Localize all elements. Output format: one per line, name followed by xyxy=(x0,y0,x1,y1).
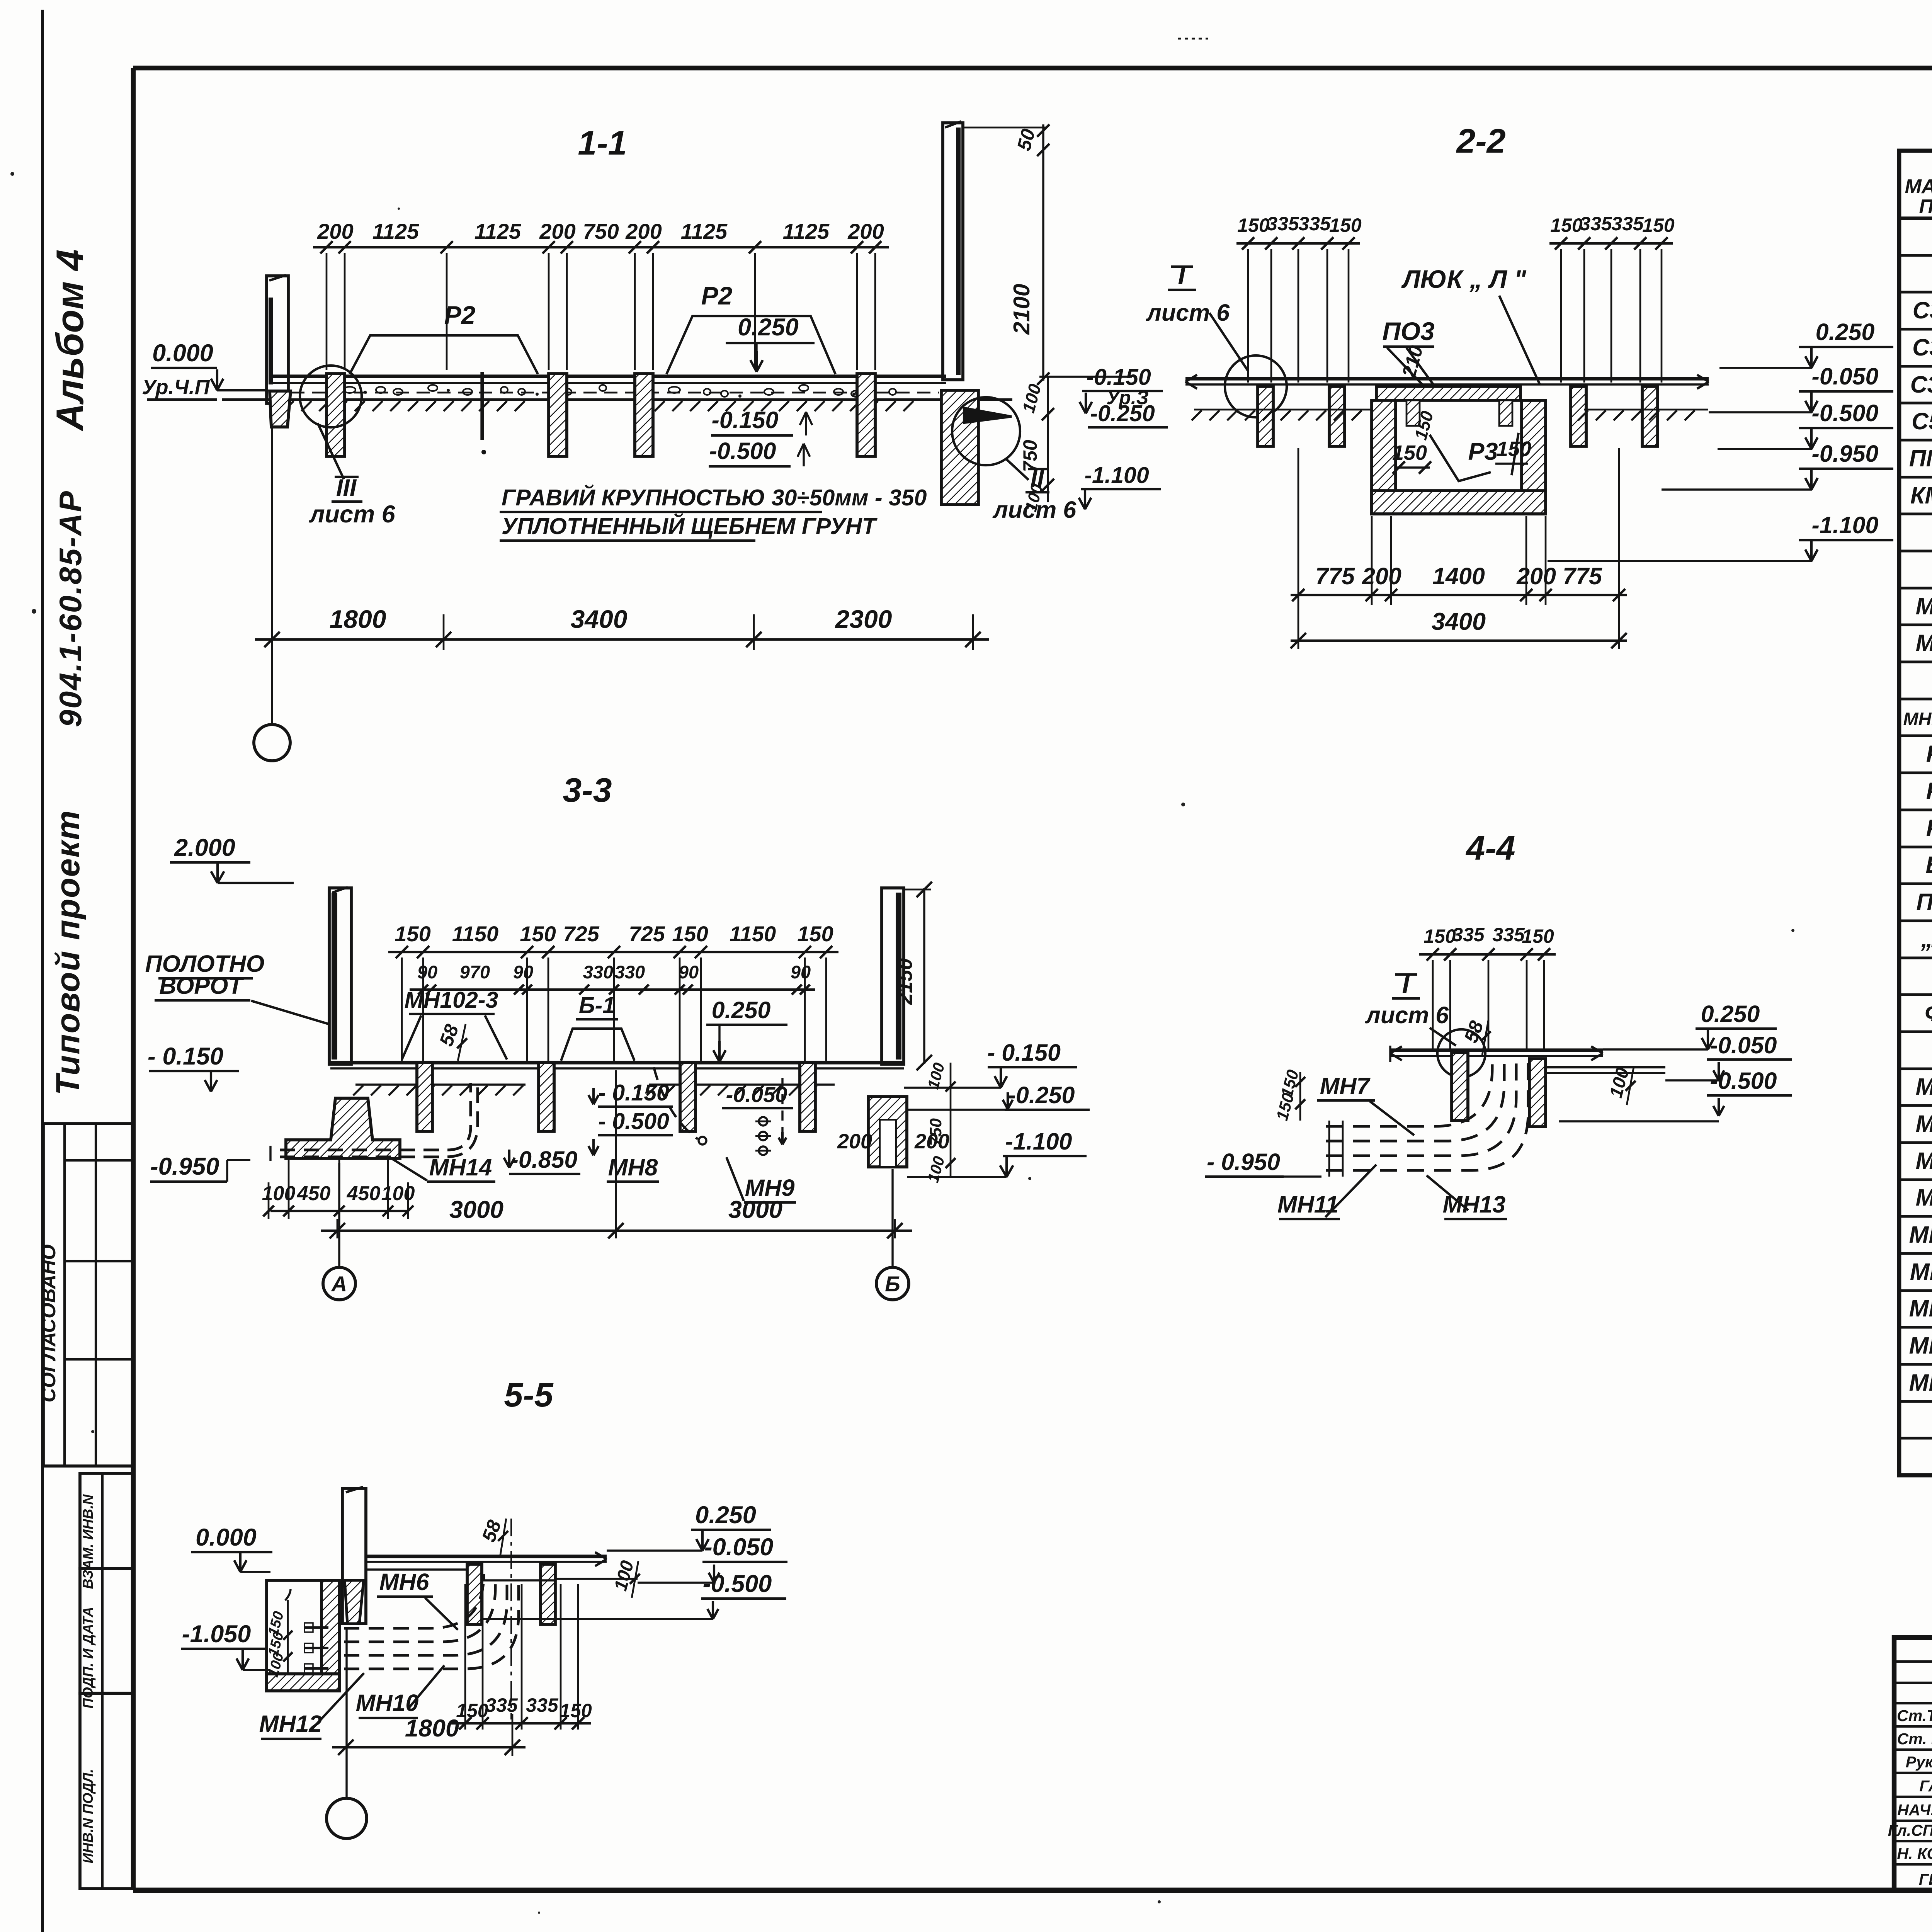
svg-text:100: 100 xyxy=(381,1182,415,1205)
section 4-4 right slab lines xyxy=(1546,1066,1665,1068)
svg-text:200: 200 xyxy=(625,219,662,243)
svg-text:ПМ18: ПМ18 xyxy=(1909,445,1932,471)
svg-text:335: 335 xyxy=(1298,213,1331,235)
section 4-4 top dim xyxy=(1419,953,1556,956)
svg-text:Ф6: Ф6 xyxy=(1925,1000,1932,1026)
svg-text:Р3: Р3 xyxy=(1926,815,1932,841)
svg-text:-0.050: -0.050 xyxy=(726,1082,787,1107)
svg-text:150: 150 xyxy=(1522,925,1554,947)
svg-text:150: 150 xyxy=(395,922,430,946)
svg-text:450: 450 xyxy=(297,1182,331,1205)
svg-text:1800: 1800 xyxy=(330,605,386,633)
section 2-2 pit walls xyxy=(1372,400,1396,514)
svg-text:0.250: 0.250 xyxy=(1816,319,1875,345)
svg-text:Р1: Р1 xyxy=(1926,741,1932,767)
svg-text:775: 775 xyxy=(1315,563,1355,589)
section 1-1 ground line xyxy=(222,398,1012,401)
svg-text:2.000: 2.000 xyxy=(174,834,235,861)
section 1-1 grate label Р2 left xyxy=(350,335,538,374)
svg-text:ВЗАМ. ИНВ.N: ВЗАМ. ИНВ.N xyxy=(80,1494,96,1589)
svg-text:150: 150 xyxy=(797,922,833,946)
spec table grid xyxy=(1899,151,1932,1475)
svg-text:750: 750 xyxy=(1019,440,1041,472)
svg-text:335: 335 xyxy=(1492,924,1525,946)
svg-text:Р2: Р2 xyxy=(444,301,476,329)
section 1-1 fence post footing 3 xyxy=(635,374,653,456)
svg-text:ЛЮК „ Л ": ЛЮК „ Л " xyxy=(1401,265,1526,293)
section 2-2 top dim right group xyxy=(1549,242,1673,245)
svg-text:III: III xyxy=(336,474,357,502)
svg-text:4-4: 4-4 xyxy=(1465,829,1515,867)
section 3-3 right gate post xyxy=(882,888,904,1064)
svg-text:-0.500: -0.500 xyxy=(709,438,776,464)
section 3-3 left foundation Ф6 xyxy=(286,1098,400,1158)
section 1-1 bottom dimension line xyxy=(255,638,989,641)
section 3-3 post footing 2 xyxy=(539,1063,554,1131)
svg-text:- 0.150: - 0.150 xyxy=(148,1043,223,1070)
svg-text:УПЛОТНЕННЫЙ ЩЕБНЕМ ГРУНТ: УПЛОТНЕННЫЙ ЩЕБНЕМ ГРУНТ xyxy=(502,513,878,539)
section 3-3 post footing 1 xyxy=(417,1063,432,1131)
title block left grid rows xyxy=(1894,1660,1932,1663)
svg-text:I: I xyxy=(1178,260,1186,290)
svg-text:90: 90 xyxy=(679,962,699,982)
fold mark top center xyxy=(1178,38,1208,40)
svg-text:С38г: С38г xyxy=(1913,297,1932,323)
svg-text:- 0.950: - 0.950 xyxy=(1207,1149,1280,1175)
svg-text:„Л": „Л" xyxy=(1920,926,1932,952)
svg-text:725: 725 xyxy=(629,922,665,946)
svg-text:335: 335 xyxy=(1580,213,1612,235)
svg-text:Ст.ТЕХН.: Ст.ТЕХН. xyxy=(1897,1707,1932,1725)
sheet frame xyxy=(133,66,1932,70)
svg-text:НАЧ.ОТД.: НАЧ.ОТД. xyxy=(1897,1801,1932,1819)
sidebar box ПОДП. И ДАТА xyxy=(80,1568,133,1693)
svg-text:200: 200 xyxy=(1362,563,1401,589)
svg-text:0.250: 0.250 xyxy=(1701,1001,1760,1027)
svg-text:-0.050: -0.050 xyxy=(1812,363,1879,389)
svg-text:МН11: МН11 xyxy=(1910,1259,1932,1285)
svg-text:335: 335 xyxy=(1611,213,1644,235)
svg-text:-0.050: -0.050 xyxy=(1710,1032,1777,1058)
svg-text:150: 150 xyxy=(1550,214,1583,236)
section 1-1 right side dims xyxy=(963,127,1046,129)
svg-text:1125: 1125 xyxy=(372,219,419,243)
svg-text:ВОРОТ: ВОРОТ xyxy=(159,973,244,999)
section 5-5 dim 1800 xyxy=(332,1746,526,1748)
section 1-1 right wall post xyxy=(943,123,963,380)
svg-text:-0.500: -0.500 xyxy=(703,1570,772,1597)
svg-text:3-3: 3-3 xyxy=(563,771,612,809)
svg-text:Р2: Р2 xyxy=(701,281,733,310)
svg-text:330: 330 xyxy=(615,962,645,982)
svg-text:3000: 3000 xyxy=(728,1196,782,1223)
section 5-5 ground lines right xyxy=(482,1579,556,1581)
svg-text:ИНВ.N ПОДЛ.: ИНВ.N ПОДЛ. xyxy=(80,1769,96,1864)
svg-text:150: 150 xyxy=(1392,441,1427,464)
svg-text:200: 200 xyxy=(1516,563,1556,589)
svg-text:А: А xyxy=(331,1272,347,1296)
svg-text:Р3: Р3 xyxy=(1468,438,1498,465)
section 3-3 sub dim line xyxy=(410,988,815,991)
section 2-2 bottom dims xyxy=(1291,594,1627,596)
scan specks xyxy=(10,172,14,176)
svg-text:200: 200 xyxy=(837,1130,872,1153)
svg-text:-0.150: -0.150 xyxy=(1086,364,1151,390)
section 3-3 axis А xyxy=(338,1163,340,1267)
svg-text:-0.250: -0.250 xyxy=(1090,401,1155,426)
svg-text:-0.850: -0.850 xyxy=(511,1146,578,1173)
section 2-2 post footing 2 xyxy=(1329,386,1345,446)
svg-text:3400: 3400 xyxy=(1432,608,1486,635)
svg-text:150: 150 xyxy=(1329,214,1362,236)
section 5-5 pit dims rotated xyxy=(287,1600,289,1673)
section 2-2 top dim left group xyxy=(1236,242,1360,245)
svg-text:- 0.150: - 0.150 xyxy=(598,1080,669,1105)
svg-text:С58б: С58б xyxy=(1912,408,1932,434)
svg-text:лист 6: лист 6 xyxy=(1146,299,1230,326)
section 4-4 detail circle xyxy=(1437,1029,1485,1077)
svg-text:МН10: МН10 xyxy=(356,1690,419,1716)
svg-text:-0.050: -0.050 xyxy=(704,1534,774,1561)
svg-text:150: 150 xyxy=(456,1700,488,1721)
svg-text:лист 6: лист 6 xyxy=(308,501,395,528)
section 3-3 dim 2150 xyxy=(923,888,925,1064)
svg-text:450: 450 xyxy=(347,1182,381,1205)
svg-text:100: 100 xyxy=(262,1182,296,1205)
svg-text:МН7: МН7 xyxy=(1320,1073,1371,1099)
section 3-3 slab xyxy=(330,1061,904,1064)
svg-text:ГИП: ГИП xyxy=(1919,1871,1932,1888)
section 1-1 detail circle III xyxy=(300,366,362,427)
svg-text:МН9: МН9 xyxy=(1916,1184,1932,1211)
svg-text:90: 90 xyxy=(513,962,533,982)
svg-text:1125: 1125 xyxy=(783,219,830,243)
section 2-2 post footing 4 xyxy=(1642,386,1658,446)
svg-text:-0.500: -0.500 xyxy=(1710,1068,1777,1094)
svg-text:Гл.СПЕЦ.ТО: Гл.СПЕЦ.ТО xyxy=(1888,1821,1932,1839)
svg-text:2150: 2150 xyxy=(893,958,917,1005)
svg-text:335: 335 xyxy=(1452,924,1485,946)
svg-text:904.1-60.85-АР: 904.1-60.85-АР xyxy=(53,490,88,727)
svg-text:150: 150 xyxy=(672,922,708,946)
section 3-3 right small dims xyxy=(950,1063,952,1177)
svg-text:0.000: 0.000 xyxy=(152,340,213,367)
section 1-1 gravel dots xyxy=(344,387,355,393)
section 4-4 post right xyxy=(1529,1059,1546,1127)
svg-text:1400: 1400 xyxy=(1432,563,1485,589)
section 4-4 pipe end ticks xyxy=(1328,1121,1330,1177)
svg-text:1800: 1800 xyxy=(405,1715,459,1742)
section 1-1 column axis circle xyxy=(271,427,273,724)
section 2-2 pit bottom xyxy=(1372,491,1546,514)
section 2-2 slab xyxy=(1185,377,1709,380)
section 5-5 dim 150 335 335 150 xyxy=(451,1722,591,1725)
section 1-1 floor slab xyxy=(270,374,946,378)
svg-text:МН7: МН7 xyxy=(1916,1111,1932,1137)
svg-text:-0.500: -0.500 xyxy=(1812,400,1879,426)
svg-text:970: 970 xyxy=(460,962,490,982)
svg-text:МН10: МН10 xyxy=(1909,1221,1932,1248)
svg-text:-1.100: -1.100 xyxy=(1005,1128,1072,1155)
section 3-3 label МН9 bolts xyxy=(759,1117,767,1126)
svg-text:Н. КОНТР.: Н. КОНТР. xyxy=(1897,1845,1932,1862)
section 3-3 bottom dims xyxy=(270,1210,408,1212)
sidebar box ВЗАМ.ИНВ.N xyxy=(80,1473,133,1568)
outer page border left xyxy=(41,10,44,1932)
section 2-2 anchor strips xyxy=(1406,400,1420,426)
section 4-4 pipes МН7 МН11 МН13 xyxy=(1326,1056,1492,1126)
section 3-3 label МН8 pipe xyxy=(654,1067,698,1139)
section 5-5 axis circle xyxy=(345,1627,347,1798)
svg-text:-1.050: -1.050 xyxy=(182,1621,251,1648)
section 3-3 right foundation xyxy=(868,1097,907,1167)
sidebar box ИНВ.N ПОДЛ. xyxy=(80,1693,133,1889)
svg-text:ПО3: ПО3 xyxy=(1916,889,1932,915)
svg-text:КМ18: КМ18 xyxy=(1910,482,1932,509)
section 5-5 central post xyxy=(342,1488,366,1624)
section 1-1 expansion joint xyxy=(480,372,484,440)
section 1-1 left gate post xyxy=(267,276,288,403)
svg-text:Б1: Б1 xyxy=(1925,852,1932,878)
svg-text:МН102-3: МН102-3 xyxy=(405,987,498,1013)
svg-text:0.250: 0.250 xyxy=(695,1502,756,1529)
svg-text:МН14: МН14 xyxy=(1909,1369,1932,1396)
svg-text:МН6: МН6 xyxy=(379,1569,430,1595)
section 1-1 top dimension line xyxy=(313,246,889,248)
section 5-5 pit bolts xyxy=(305,1626,328,1629)
svg-text:МС5: МС5 xyxy=(1916,630,1932,656)
svg-text:- 0.500: - 0.500 xyxy=(598,1109,669,1134)
section 5-5 post footing 2 xyxy=(541,1564,555,1624)
section 3-3 pipe МН14 xyxy=(280,1083,471,1150)
svg-text:2100: 2100 xyxy=(1009,284,1034,335)
section 1-1 left footing block xyxy=(270,391,291,427)
svg-text:2300: 2300 xyxy=(835,605,892,633)
svg-text:335: 335 xyxy=(526,1694,559,1716)
svg-text:С38ж: С38ж xyxy=(1910,371,1932,398)
svg-text:МАРКА: МАРКА xyxy=(1905,175,1932,198)
svg-text:775: 775 xyxy=(1563,563,1602,589)
svg-text:ПОЗ: ПОЗ xyxy=(1919,196,1932,218)
section 3-3 post footing 4 xyxy=(800,1063,815,1131)
section 1-1 grate label Р2 right xyxy=(667,316,835,374)
section 5-5 slab xyxy=(366,1554,607,1558)
section 4-4 post left xyxy=(1452,1053,1468,1121)
section 1-1 detail circle II xyxy=(952,397,1020,465)
title block frame xyxy=(1894,1638,1932,1890)
svg-text:200: 200 xyxy=(847,219,884,243)
section 2-2 pit slab ПО3 xyxy=(1376,386,1520,400)
svg-text:0.250: 0.250 xyxy=(738,314,799,341)
svg-text:725: 725 xyxy=(563,922,599,946)
svg-text:90: 90 xyxy=(791,962,811,982)
section 1-1 right footing xyxy=(941,390,978,505)
section 4-4 slab xyxy=(1390,1048,1603,1052)
section 3-3 post footing 3 xyxy=(680,1063,696,1131)
svg-text:МН12: МН12 xyxy=(1909,1295,1932,1321)
svg-text:150: 150 xyxy=(520,922,556,946)
section 2-2 post footing 3 xyxy=(1571,386,1586,446)
svg-text:Ур.Ч.П: Ур.Ч.П xyxy=(142,376,210,399)
svg-text:150: 150 xyxy=(1237,214,1270,236)
section 3-3 top dim line xyxy=(388,951,838,953)
svg-text:200: 200 xyxy=(539,219,575,243)
svg-text:-0.950: -0.950 xyxy=(150,1153,219,1180)
svg-text:Ст. ИНЖ.: Ст. ИНЖ. xyxy=(1897,1730,1932,1748)
section 1-1 right wedge xyxy=(964,408,1012,423)
section 3-3 axis Б xyxy=(891,1169,893,1267)
svg-text:-1.100: -1.100 xyxy=(1812,512,1879,538)
svg-text:330: 330 xyxy=(583,962,613,982)
section 1-1 fence post footing 2 xyxy=(549,374,567,456)
section 1-1 fence post footing 1 xyxy=(327,374,345,456)
svg-text:МС4: МС4 xyxy=(1916,593,1932,619)
svg-text:ГРАВИЙ КРУПНОСТЬЮ 30÷50мм -: ГРАВИЙ КРУПНОСТЬЮ 30÷50мм - 350 xyxy=(502,484,927,510)
svg-text:3000: 3000 xyxy=(449,1196,503,1223)
svg-text:Р2: Р2 xyxy=(1926,778,1932,804)
svg-text:МН13: МН13 xyxy=(1909,1332,1932,1359)
svg-text:Б: Б xyxy=(885,1272,900,1296)
svg-text:С38е: С38е xyxy=(1912,334,1932,361)
svg-text:Рук. ГР.: Рук. ГР. xyxy=(1906,1753,1932,1771)
section 5-5 post footing 1 xyxy=(467,1564,482,1624)
svg-text:200: 200 xyxy=(317,219,353,243)
section 2-2 post footing 1 xyxy=(1258,386,1273,446)
section 5-5 axis dashdot xyxy=(510,1519,512,1719)
svg-text:2-2: 2-2 xyxy=(1456,122,1505,160)
svg-text:ПО3: ПО3 xyxy=(1382,317,1435,345)
svg-text:90: 90 xyxy=(417,962,437,982)
svg-text:МН14: МН14 xyxy=(429,1154,492,1180)
svg-text:750: 750 xyxy=(927,1118,945,1146)
svg-text:ГАП: ГАП xyxy=(1919,1777,1932,1795)
svg-text:1-1: 1-1 xyxy=(578,124,627,162)
section 3-3 level -0.850 xyxy=(504,1158,509,1168)
sidebar table СОГЛАСОВАНО xyxy=(43,1124,133,1466)
svg-text:0.000: 0.000 xyxy=(196,1524,257,1551)
section 5-5 pit xyxy=(267,1580,339,1691)
svg-text:-1.100: -1.100 xyxy=(1084,463,1149,488)
section 1-1 fence post footing 4 xyxy=(857,374,875,456)
svg-text:МН6: МН6 xyxy=(1916,1073,1932,1100)
svg-text:1150: 1150 xyxy=(730,922,776,946)
section 2-2 detail circle xyxy=(1225,355,1287,417)
section 3-3 ground line xyxy=(355,1083,526,1085)
svg-text:лист 6: лист 6 xyxy=(1365,1002,1449,1028)
svg-text:-0.150: -0.150 xyxy=(712,407,779,433)
svg-text:- 0.150: - 0.150 xyxy=(987,1039,1061,1066)
section 3-3 left gate post xyxy=(329,888,351,1064)
svg-text:МН102-3: МН102-3 xyxy=(1903,709,1932,729)
svg-text:Б-1: Б-1 xyxy=(579,993,615,1018)
svg-text:1125: 1125 xyxy=(681,219,728,243)
svg-text:Альбом 4: Альбом 4 xyxy=(48,249,91,432)
svg-text:750: 750 xyxy=(583,219,619,243)
svg-text:335: 335 xyxy=(1267,213,1299,235)
svg-text:3400: 3400 xyxy=(571,605,628,633)
svg-text:150: 150 xyxy=(1423,925,1456,947)
svg-text:-0.950: -0.950 xyxy=(1812,440,1879,467)
svg-text:335: 335 xyxy=(485,1694,518,1716)
svg-text:1125: 1125 xyxy=(474,219,521,243)
svg-text:5-5: 5-5 xyxy=(504,1376,553,1414)
svg-text:МН12: МН12 xyxy=(259,1711,322,1737)
svg-text:1150: 1150 xyxy=(452,922,498,946)
section 2-2 total dim 3400 xyxy=(1291,639,1627,642)
svg-text:Типовой проект: Типовой проект xyxy=(49,810,87,1095)
svg-text:0.250: 0.250 xyxy=(712,997,771,1023)
svg-text:150: 150 xyxy=(560,1700,592,1721)
svg-text:-0.250: -0.250 xyxy=(1008,1082,1075,1108)
section 5-5 pipes МН6 МН10 xyxy=(344,1574,484,1628)
svg-text:МН8: МН8 xyxy=(1916,1148,1932,1174)
section 2-2 ground hatch xyxy=(1194,409,1372,411)
svg-text:150: 150 xyxy=(1642,214,1675,236)
svg-text:СОГЛАСОВАНО: СОГЛАСОВАНО xyxy=(37,1244,60,1402)
